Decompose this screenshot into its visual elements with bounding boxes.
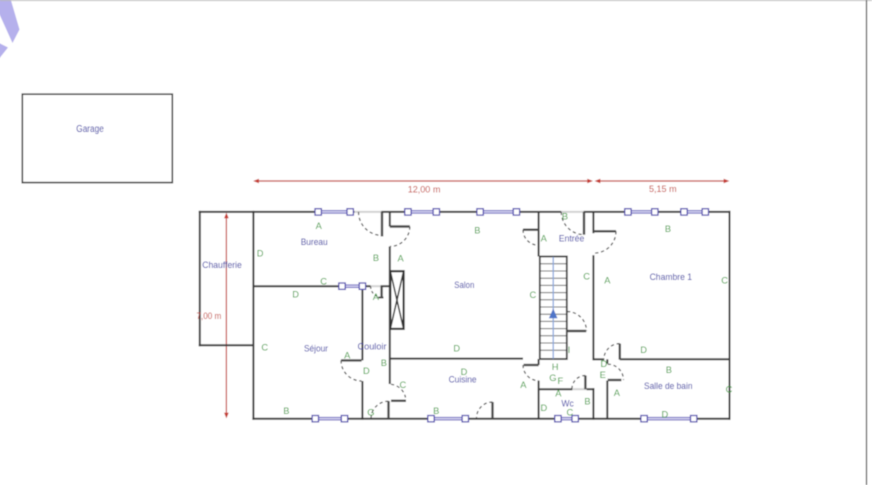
- svg-text:Séjour: Séjour: [304, 344, 328, 354]
- door wc: [572, 376, 586, 390]
- svg-text:H: H: [552, 362, 559, 372]
- window W2 salon top left: [405, 209, 440, 215]
- dimension 12,00 m: [253, 179, 593, 184]
- svg-text:A: A: [520, 380, 527, 390]
- svg-text:D: D: [453, 344, 460, 354]
- svg-text:A: A: [555, 389, 562, 399]
- wall wc left: [538, 389, 540, 419]
- logo corner mark: [0, 0, 20, 60]
- door entree to stair hall: [567, 312, 587, 332]
- svg-text:D: D: [662, 410, 669, 420]
- window W4 chambre top left: [625, 209, 658, 215]
- staircase: [540, 264, 567, 350]
- wall stair hall left: [538, 212, 540, 257]
- svg-text:D: D: [363, 366, 370, 376]
- door bureau to couloir: [371, 286, 384, 297]
- svg-text:B: B: [666, 365, 672, 375]
- door salon to entree: [523, 230, 539, 246]
- svg-text:C: C: [721, 276, 728, 286]
- wall cuisine top: [390, 358, 523, 360]
- window W10 salle de bain bottom: [641, 416, 697, 422]
- svg-text:12,00 m: 12,00 m: [408, 185, 441, 196]
- walls: [199, 211, 731, 420]
- room labels: [202, 233, 692, 408]
- svg-text:A: A: [344, 350, 351, 360]
- svg-text:B: B: [474, 226, 480, 236]
- door salle de bain E: [608, 364, 624, 380]
- staircase direction line: [552, 257, 554, 359]
- top border: [0, 0, 872, 2]
- svg-text:Bureau: Bureau: [301, 237, 328, 247]
- door salle de bain D: [604, 344, 620, 360]
- window W1 bureau top: [315, 209, 353, 215]
- svg-text:G: G: [549, 373, 556, 383]
- svg-text:D: D: [257, 249, 264, 259]
- wall top exterior: [199, 211, 317, 213]
- svg-text:F: F: [558, 376, 564, 386]
- svg-text:C: C: [567, 407, 574, 417]
- door chambre 1: [594, 231, 616, 253]
- door sejour to couloir: [341, 360, 362, 381]
- wall wc right: [592, 388, 594, 420]
- svg-text:B: B: [373, 253, 379, 263]
- svg-text:A: A: [316, 221, 323, 231]
- window W3 salon top right: [477, 209, 520, 215]
- svg-text:A: A: [541, 234, 548, 244]
- door bureau to salon: [390, 227, 410, 247]
- svg-text:B: B: [665, 224, 671, 234]
- dimension 5,15 m: [595, 179, 730, 184]
- wall couloir left: [361, 285, 363, 360]
- door entree front: [561, 212, 584, 235]
- door cuisine to stair hall: [523, 365, 539, 381]
- svg-text:B: B: [433, 406, 439, 416]
- door bureau top: [359, 212, 383, 237]
- svg-text:B: B: [562, 211, 568, 221]
- svg-text:C: C: [320, 277, 327, 287]
- svg-text:A: A: [614, 388, 621, 398]
- door openings (light): [355, 212, 587, 389]
- wall wc top: [539, 388, 573, 390]
- svg-text:D: D: [640, 345, 647, 355]
- svg-text:Couloir: Couloir: [358, 341, 387, 351]
- svg-text:I: I: [568, 345, 571, 355]
- svg-text:A: A: [397, 254, 404, 264]
- svg-text:C: C: [261, 342, 268, 352]
- svg-text:5,15 m: 5,15 m: [649, 184, 677, 195]
- svg-text:D: D: [601, 359, 608, 369]
- window W8 cuisine bottom: [428, 416, 469, 422]
- svg-text:B: B: [584, 397, 590, 407]
- dimension 7,00 m: [224, 213, 229, 419]
- svg-text:D: D: [461, 367, 468, 377]
- wall bottom exterior: [252, 418, 312, 420]
- wall bureau right / salon left: [389, 212, 391, 227]
- door couloir bottom: [371, 401, 389, 419]
- svg-text:D: D: [292, 289, 299, 299]
- svg-text:Salon: Salon: [454, 280, 474, 290]
- wall left exterior: [252, 211, 254, 420]
- svg-text:D: D: [541, 403, 548, 413]
- svg-text:A: A: [373, 292, 380, 302]
- dimension texts layer: [197, 184, 677, 322]
- window W9 wc bottom: [555, 416, 579, 422]
- svg-text:A: A: [604, 276, 611, 286]
- wall right exterior: [729, 211, 731, 420]
- window W5 chambre top right: [681, 209, 709, 215]
- staircase arrow: [549, 309, 558, 319]
- svg-text:Entrée: Entrée: [559, 233, 585, 243]
- wall chaufferie left: [199, 211, 201, 346]
- svg-text:7,00 m: 7,00 m: [197, 311, 222, 322]
- wall salle de bain top: [593, 358, 604, 360]
- wall bureau/sejour divider: [253, 285, 339, 287]
- svg-text:Chambre 1: Chambre 1: [650, 272, 693, 282]
- window W7 sejour bottom: [312, 416, 348, 422]
- window W6 bureau/sejour divider: [339, 283, 366, 289]
- garage: [22, 94, 172, 182]
- chimney: [390, 271, 403, 329]
- svg-text:C: C: [529, 290, 536, 300]
- wall chaufferie bottom: [199, 344, 254, 346]
- svg-text:Salle de bain: Salle de bain: [644, 381, 693, 391]
- svg-text:E: E: [600, 370, 606, 380]
- wall letters: [257, 211, 733, 419]
- svg-text:Chaufferie: Chaufferie: [202, 260, 242, 270]
- svg-text:B: B: [381, 358, 387, 368]
- wall shaft right: [606, 359, 608, 363]
- svg-text:B: B: [283, 406, 289, 416]
- svg-text:Garage: Garage: [76, 124, 104, 135]
- door cuisine bottom: [477, 402, 493, 419]
- svg-text:C: C: [726, 385, 733, 395]
- right border: [866, 0, 868, 485]
- svg-text:G: G: [367, 408, 374, 418]
- svg-text:C: C: [583, 272, 590, 282]
- wall chambre left: [592, 212, 594, 233]
- door couloir to cuisine: [391, 384, 406, 401]
- svg-text:C: C: [399, 380, 406, 390]
